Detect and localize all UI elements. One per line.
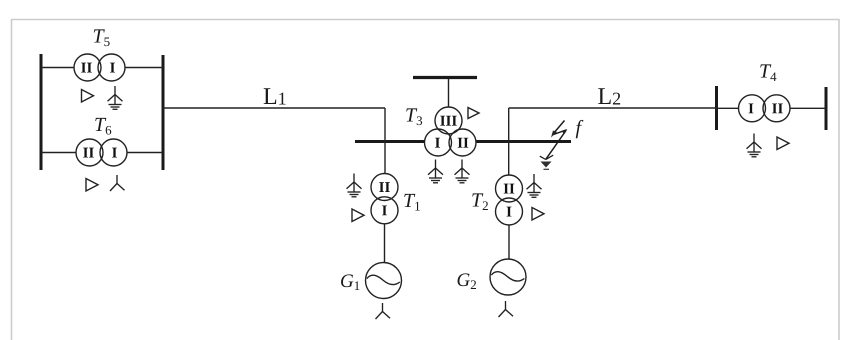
wire T4 to bus D [790,107,827,109]
bus bar left B [162,55,165,170]
T4 grounded wye symbol [747,134,762,157]
wire T5 to bus B [123,67,163,69]
label T3 [406,108,422,125]
transformer T6 [76,139,127,166]
transformer T5 [74,54,125,81]
label T2 [472,193,488,210]
label f (fault) [576,120,584,138]
transformer T2 [496,175,523,225]
transformer T1 [371,174,398,224]
top bus bar (T3 tertiary) [413,76,477,79]
T5 grounded wye symbol [108,86,123,109]
wire L2 drop through bus to T2 [508,108,510,175]
wire T3 riser to top bus [448,79,450,108]
T3 delta winding symbol [468,108,479,119]
label T4 [760,64,776,81]
transformer T4 [739,95,791,122]
T3 grounded wye symbol (winding II) [455,160,470,183]
T2 delta winding symbol [532,208,544,221]
T1 delta winding symbol [352,209,364,222]
wire bus A to T6 [41,152,78,154]
wire T2 to G2 [508,225,510,260]
transformer T3 (three-winding) [425,107,477,156]
G1 wye symbol [376,303,391,319]
T1 grounded wye symbol [347,174,362,197]
label T6 [95,118,111,135]
wire T1 to G1 [384,224,386,264]
generator G2 [490,259,526,295]
T5 delta winding symbol [82,90,94,103]
label T5 [94,29,110,46]
label G2 [458,273,476,289]
line L2 [509,107,717,109]
label L1 [264,88,286,104]
label L2 [598,88,620,104]
label G1 [341,274,359,290]
T2 grounded wye symbol [527,174,542,197]
right bus bar D [825,87,828,130]
fault lightning arrow [540,121,568,170]
label T1 [404,194,420,211]
right bus bar C [715,86,718,130]
wire bus A to T5 [41,67,76,69]
T4 delta winding symbol [777,137,789,150]
T6 delta winding symbol [86,179,98,192]
wire T6 to bus B [125,152,163,154]
wire L1 drop to middle bus and T1 [384,108,386,174]
wire bus C to T4 [717,107,740,109]
bus bar left A [40,54,43,170]
line L1 [163,107,385,109]
T6 wye winding symbol [110,175,125,191]
T3 grounded wye symbol (winding I) [428,160,443,183]
generator G1 [366,263,402,299]
middle bus bar [355,140,571,143]
G2 wye symbol [499,301,514,317]
